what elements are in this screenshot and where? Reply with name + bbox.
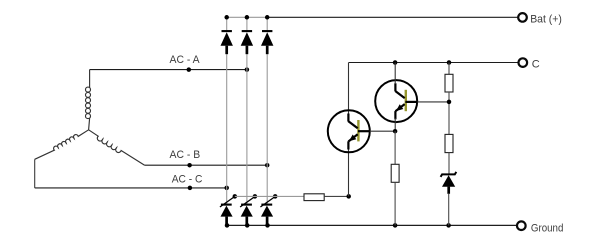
node: D3 cathode junction <box>265 15 270 20</box>
resistor R1 <box>445 74 453 92</box>
wire: Q2 emitter lead <box>394 118 396 131</box>
svg-text:AC - A: AC - A <box>170 54 201 66</box>
wire: phase column 2 <box>246 54 248 204</box>
node: SCR1 gate junction <box>233 194 238 199</box>
wire: R1 to R3 lead <box>448 92 450 134</box>
node: SCR3 gate junction <box>273 194 278 199</box>
thyristor SCR1 <box>220 197 235 225</box>
node: AC-A label dot <box>187 67 192 72</box>
transistor Q1 <box>328 110 370 152</box>
node: C rail / Q2 collector <box>393 60 398 65</box>
svg-text:AC - C: AC - C <box>172 174 203 186</box>
node: SCR3 anode ground <box>265 223 270 228</box>
winding coil L2 (phase B, lower-right) <box>89 130 145 165</box>
wire: zener to ground <box>448 194 450 226</box>
wire: Q1 base to junction <box>370 130 395 132</box>
node: SCR1 anode ground <box>225 223 230 228</box>
thyristor SCR2 <box>240 197 255 225</box>
wire AC-B <box>145 164 268 166</box>
node: C rail / R1 <box>447 60 452 65</box>
wire: Q2 base to R1/R3 junction <box>417 101 449 103</box>
wire: R1 top lead <box>448 63 450 75</box>
node: SCR2 anode ground <box>245 223 250 228</box>
resistor R3 <box>445 134 453 152</box>
diode D1 <box>221 17 233 54</box>
node: Q2 base junction <box>447 100 452 105</box>
terminal Bat (+) <box>518 13 527 22</box>
svg-text:Bat (+): Bat (+) <box>530 14 562 26</box>
node: zener ground <box>446 223 451 228</box>
wire: Q1 emitter down lead <box>348 149 350 197</box>
wire: phase column 3 <box>266 54 268 204</box>
node: AC-C to phase column 1 <box>224 186 229 191</box>
thyristor SCR3 <box>260 197 275 225</box>
node: emitter-gate junction <box>346 194 351 199</box>
node: D1 cathode junction <box>224 15 229 20</box>
node: Q2 emitter / Q1 base junction <box>393 129 398 134</box>
node: AC-B to phase column 3 <box>265 163 270 168</box>
node: SCR2 gate junction <box>253 194 258 199</box>
wire: R4 to Q1 emitter <box>324 195 349 197</box>
node: D2 cathode junction <box>245 15 250 20</box>
wire: R3 to zener <box>448 153 450 175</box>
wire: SCR gate bus <box>235 195 304 197</box>
wire: R2 top lead <box>394 131 396 164</box>
node: AC-C label dot <box>188 186 193 191</box>
node: AC-B label dot <box>187 163 192 168</box>
svg-text:AC - B: AC - B <box>170 149 201 161</box>
wire: winding left drop to AC-C <box>34 159 36 188</box>
transistor Q2 <box>375 80 417 122</box>
resistor R4 (gate resistor) <box>304 194 324 201</box>
winding coil L1 (phase A, vertical) <box>86 70 91 130</box>
wire: R2 bottom lead <box>394 182 396 225</box>
resistor R2 <box>391 164 399 182</box>
node: R2 ground <box>393 223 398 228</box>
svg-text:Ground: Ground <box>531 222 564 234</box>
wire: Bat(+) top rail <box>227 16 519 18</box>
node: AC-A to phase column 2 <box>245 67 250 72</box>
wire AC-A <box>90 69 247 71</box>
terminal Ground <box>517 221 526 230</box>
wire AC-C <box>35 187 227 189</box>
diode D2 <box>241 17 253 54</box>
wire: Q1 collector lead <box>348 63 350 115</box>
terminal C <box>519 58 528 67</box>
wire: ground rail <box>227 224 517 226</box>
svg-text:C: C <box>532 59 540 71</box>
diode D3 <box>261 17 273 54</box>
zener diode ZD1 <box>441 172 457 194</box>
wire: Q2 collector lead <box>394 63 396 85</box>
wire: phase column 1 <box>226 54 228 204</box>
wire: C rail <box>349 62 519 64</box>
winding coil L3 (phase C, lower-left) <box>35 130 89 160</box>
